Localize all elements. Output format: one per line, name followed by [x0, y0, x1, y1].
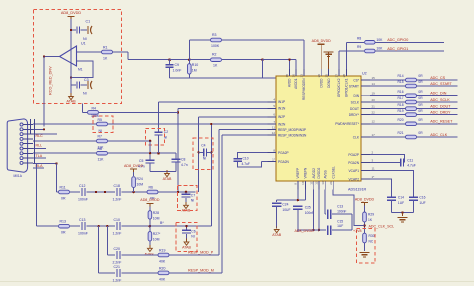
- IC U2 left pin 6 (IN2P): [268, 116, 277, 118]
- wire row A R11-C12: [70, 191, 80, 193]
- svg-text:R24: R24: [137, 177, 143, 181]
- IC U2 top pin 27 (GPIO2/CLK2): [338, 69, 340, 77]
- svg-text:1.2nF: 1.2nF: [113, 198, 122, 202]
- svg-text:0R: 0R: [418, 118, 423, 122]
- wire pin to resistor R16: [370, 95, 406, 97]
- svg-text:DVDD: DVDD: [319, 78, 323, 88]
- svg-text:0R: 0R: [418, 103, 423, 107]
- power port ATAB below C7: [185, 202, 187, 206]
- wire main row to C9 junction: [128, 59, 170, 61]
- junction ADC_CLK_SCL node: [363, 224, 366, 227]
- capacitor C3b (NI) hanging from row A: [185, 192, 187, 193]
- pin 1 output wire of U1 to node: [44, 56, 60, 58]
- IC U2 bottom pin 24 (CLKSEL): [332, 181, 334, 190]
- capacitor C10b loop at PGA2 pins: [238, 153, 268, 159]
- IC U2 top pin 16 (AVDD1): [295, 69, 297, 77]
- svg-text:17: 17: [372, 133, 376, 137]
- svg-text:NI: NI: [83, 37, 87, 41]
- resistor R19: [158, 253, 169, 257]
- svg-text:R18: R18: [398, 103, 404, 107]
- capacitor C20 row C: [116, 251, 118, 259]
- svg-text:1UF: 1UF: [419, 201, 425, 205]
- svg-text:R6: R6: [149, 186, 154, 190]
- wire R3 to chip top pin: [222, 39, 304, 41]
- junction row1 meets riser: [210, 123, 212, 125]
- wire row B drop to row C: [106, 226, 108, 255]
- svg-text:TLA: TLA: [36, 154, 43, 158]
- wire GPIO2 to R9: [338, 51, 340, 69]
- svg-text:IN1P: IN1P: [278, 100, 285, 104]
- node RCO drive junction: [43, 55, 45, 57]
- svg-text:NI: NI: [191, 199, 194, 203]
- connector P1 pin 1 stub: [23, 124, 33, 126]
- svg-text:0R: 0R: [61, 231, 66, 235]
- svg-text:28: 28: [342, 74, 346, 78]
- svg-text:1M: 1M: [192, 69, 197, 73]
- svg-text:SCLK: SCLK: [351, 100, 360, 104]
- resistor R30 NC: [363, 233, 367, 243]
- wire VCAP cap commons: [392, 211, 414, 213]
- wire PGA2N to C11: [370, 162, 401, 164]
- svg-text:AVDD1: AVDD1: [294, 78, 298, 89]
- capacitor C3 wire: [71, 84, 76, 86]
- svg-text:DGND: DGND: [327, 78, 331, 88]
- svg-text:RESP_MODN/IN3N: RESP_MODN/IN3N: [278, 133, 307, 137]
- wire V+ vertical: [70, 19, 72, 64]
- svg-text:R20: R20: [159, 266, 165, 270]
- wire branch up to R3: [188, 40, 190, 60]
- connector P1 pin 1 circle: [20, 123, 23, 126]
- connector P1 pin 5 circle: [20, 142, 23, 145]
- svg-text:DOUT: DOUT: [350, 107, 359, 111]
- wire row B drop to row D: [98, 226, 100, 273]
- svg-text:PGA2P: PGA2P: [348, 153, 359, 157]
- svg-text:18: 18: [285, 74, 289, 78]
- svg-text:C13: C13: [337, 205, 343, 209]
- resistor R11 row A: [59, 190, 70, 194]
- svg-text:ADC_DIN: ADC_DIN: [430, 92, 447, 96]
- svg-text:12: 12: [272, 131, 276, 135]
- IC U2 right pin 12 (PWDN*/RESET*): [361, 123, 370, 125]
- svg-text:100nF: 100nF: [337, 209, 346, 213]
- junction C5 column / row6: [149, 152, 151, 154]
- junction DVDD rail: [318, 229, 321, 232]
- IC U2 right pin 1* (VCAP2): [361, 178, 370, 180]
- svg-text:VCAP2: VCAP2: [349, 177, 360, 181]
- wire to net label ADC_DOUT: [417, 108, 458, 110]
- svg-text:GPIO2/CLK2: GPIO2/CLK2: [337, 78, 341, 97]
- svg-text:R8: R8: [98, 147, 103, 151]
- connector P1 pin 6 stub: [23, 148, 33, 150]
- svg-text:NI: NI: [203, 157, 206, 161]
- ground hatch at DGND pin: [324, 51, 334, 53]
- svg-text:AVDD2: AVDD2: [312, 168, 316, 179]
- wire IN2N riser from row B: [210, 124, 212, 226]
- junction riser C4 left: [198, 151, 200, 153]
- svg-text:C20: C20: [114, 247, 120, 251]
- capacitor C1: [76, 27, 78, 34]
- power port ATAB for C5/C8: [166, 170, 168, 174]
- svg-text:NI: NI: [191, 235, 194, 239]
- svg-text:AD8_DVDD: AD8_DVDD: [355, 197, 375, 201]
- svg-text:C25: C25: [305, 206, 311, 210]
- IC U2 right pin 14 (START): [361, 85, 370, 87]
- svg-text:IN2N: IN2N: [278, 122, 286, 126]
- wire rail row2 to +1V8: [332, 229, 352, 231]
- svg-text:C14: C14: [398, 196, 404, 200]
- wire to net label ADC_CS: [417, 79, 458, 81]
- wire DB9 row7 short: [33, 157, 46, 159]
- svg-text:C12: C12: [79, 184, 85, 188]
- capacitor C13 row B: [81, 222, 83, 230]
- svg-text:R29: R29: [368, 213, 374, 217]
- capacitor C5 column below row4: [149, 141, 151, 160]
- svg-text:AD8_DVDD: AD8_DVDD: [61, 11, 82, 15]
- resistor R16 0R: [406, 94, 417, 98]
- IC U2 left pin 4 (IN1P): [268, 101, 277, 103]
- svg-text:C7: C7: [191, 194, 195, 198]
- connector P1 pin 5 stub: [23, 143, 33, 145]
- svg-text:AD8_DVDD: AD8_DVDD: [312, 39, 332, 43]
- wire DB9 row6 (R8 11K): [33, 152, 96, 154]
- wire IN1P net riser with series cap C2: [158, 136, 160, 154]
- wire to net label ADC_DIN: [417, 95, 458, 97]
- IC U2 right pin 17 (CLK): [361, 136, 370, 138]
- capacitor C12 row A: [81, 188, 83, 196]
- capacitor C15 1UF in rail row2: [327, 225, 329, 235]
- wire to net ADC_GPIO1: [375, 50, 444, 52]
- wire DB9 riser a: [29, 119, 31, 134]
- IC U2 left pin 7 (IN2N): [268, 123, 277, 125]
- svg-text:4.7uF: 4.7uF: [407, 164, 416, 168]
- svg-text:R21: R21: [398, 131, 404, 135]
- wire R2 net to top pin drops: [263, 59, 296, 61]
- IC U2 ADS1191R body: [276, 76, 361, 181]
- wire row A C12 to C18: [87, 191, 116, 193]
- svg-text:R30: R30: [369, 234, 375, 238]
- wire row B R13-C13: [70, 225, 80, 227]
- connector P1 DB9 body: [7, 119, 27, 172]
- capacitor C2 (NI) in riser: [155, 131, 163, 133]
- svg-text:R11: R11: [60, 186, 66, 190]
- svg-text:R27*: R27*: [153, 232, 161, 236]
- wire right rail joining rows: [351, 214, 353, 230]
- dashed enclosure around R5: [93, 116, 113, 133]
- svg-text:40K: 40K: [159, 277, 166, 281]
- junction IN1N riser row A: [177, 191, 179, 193]
- svg-text:CS*: CS*: [353, 78, 359, 82]
- capacitor C6 (NI) hanging from row B: [186, 226, 188, 229]
- IC U2 bottom pin 13* (AVSS): [324, 181, 326, 190]
- svg-text:ADC_CLK_SCL: ADC_CLK_SCL: [369, 224, 395, 228]
- svg-text:ADC_START: ADC_START: [430, 82, 452, 86]
- capacitor C3: [76, 82, 78, 89]
- svg-text:ADC_SCLK: ADC_SCLK: [430, 98, 450, 102]
- wire to net label ADC_SCLK: [417, 101, 458, 103]
- wire DB9 row9 short: [33, 167, 44, 169]
- wire pin to resistor R19b: [370, 114, 406, 116]
- wire R2 to chip corner: [222, 59, 263, 61]
- wire DVDD rail row2: [298, 229, 326, 231]
- wire RCO_RED_DRV vertical to DB9 row: [43, 57, 45, 127]
- capacitor C22 1UF: [387, 196, 396, 198]
- resistor R28 pull-up: [149, 206, 151, 211]
- resistor R2: [211, 58, 222, 62]
- resistor R1: [102, 50, 113, 54]
- wire row B C10 to riser: [122, 225, 212, 227]
- wire top pin AVDD drop (R2 net): [289, 60, 291, 69]
- svg-text:RLL: RLL: [36, 144, 43, 148]
- resistor R18 0R: [406, 107, 417, 111]
- IC U2 right pin 20 (SCLK): [361, 101, 370, 103]
- capacitor C10 row B: [116, 222, 118, 230]
- svg-text:PGA2N: PGA2N: [278, 160, 290, 164]
- svg-text:ADC_CLK: ADC_CLK: [430, 133, 448, 137]
- sheet border line bottom-left: [0, 281, 474, 283]
- wire R4 left riser: [81, 104, 83, 113]
- svg-text:CLKSEL: CLKSEL: [331, 166, 335, 178]
- wire R1 to corner: [112, 51, 128, 53]
- wire DB9 row2: [33, 128, 44, 130]
- ground hatch below R30: [360, 252, 370, 254]
- resistor R29 1K pull-up: [364, 205, 366, 212]
- wire to net label ADC_START: [417, 85, 458, 87]
- junction C6 row B: [185, 225, 187, 227]
- wire pin to resistor R21: [370, 136, 406, 138]
- svg-text:R13: R13: [60, 220, 66, 224]
- svg-text:GPIO1/CLK1: GPIO1/CLK1: [345, 78, 349, 97]
- svg-text:0R: 0R: [418, 131, 423, 135]
- svg-text:R19: R19: [159, 249, 165, 253]
- svg-text:ATAB: ATAB: [182, 245, 191, 249]
- svg-text:C16: C16: [419, 196, 425, 200]
- IC U2 left pin 1* (PGA2N): [268, 161, 277, 163]
- svg-text:AVSS: AVSS: [323, 170, 327, 178]
- IC U2 left pin 12 (RESP_MODN/IN3N): [268, 134, 277, 136]
- IC U2 top pin 23 (RESP/MODEN): [303, 69, 305, 77]
- svg-text:12: 12: [372, 120, 376, 124]
- resistor R3: [211, 38, 222, 42]
- connector P1 pin 3 stub: [23, 133, 33, 135]
- IC U2 bottom pin 9 (VREFP): [297, 181, 299, 190]
- resistor R8 in row6: [97, 151, 108, 155]
- resistor R9 10K: [365, 49, 376, 53]
- svg-text:NC: NC: [369, 240, 374, 244]
- svg-text:10K: 10K: [376, 38, 383, 42]
- junction row A / C3b column: [185, 191, 188, 194]
- junction C5 column crossing row6: [149, 152, 151, 154]
- svg-text:ATAB: ATAB: [272, 233, 281, 237]
- svg-text:11: 11: [372, 166, 375, 170]
- dashed enclosure around C7: [178, 185, 197, 210]
- wire pin to resistor R17: [370, 101, 406, 103]
- wire row1 to right rail: [332, 213, 352, 215]
- wire pin to resistor R20b: [370, 123, 406, 125]
- resistor R20b 0R: [406, 122, 417, 126]
- svg-text:0R: 0R: [418, 80, 423, 84]
- svg-text:22: 22: [372, 110, 376, 114]
- svg-text:23: 23: [300, 74, 304, 78]
- wire main row C9 to R10: [170, 59, 190, 61]
- svg-text:DIN: DIN: [354, 94, 360, 98]
- connector P1 pin 8 circle: [20, 157, 23, 160]
- polarized capacitor (C1 return): [87, 26, 89, 34]
- svg-text:IN1N: IN1N: [278, 107, 286, 111]
- IC U2 right pin 19 (DIN): [361, 95, 370, 97]
- svg-text:C8: C8: [181, 158, 185, 162]
- junction riser C4 right: [210, 151, 212, 153]
- power port ATAB below C24: [276, 226, 278, 230]
- junction R2 net at AVDD pin: [288, 59, 290, 61]
- IC U2 bottom pin 11* (AVDD2): [313, 181, 315, 190]
- svg-text:RCO_RED_DRV: RCO_RED_DRV: [49, 66, 53, 95]
- svg-text:VCAP1: VCAP1: [349, 169, 360, 173]
- wire row C C20 to R19: [122, 254, 159, 256]
- svg-text:0R: 0R: [418, 96, 423, 100]
- svg-text:100nF: 100nF: [305, 211, 314, 215]
- junction row B x107.3: [106, 225, 108, 227]
- svg-text:PGA2P: PGA2P: [278, 151, 289, 155]
- svg-text:C10: C10: [243, 156, 249, 160]
- IC U2 right pin 11 (VCAP1): [361, 170, 370, 172]
- wire DB9 riser b: [34, 119, 36, 163]
- svg-text:27: 27: [335, 74, 339, 78]
- capacitor C23 1UF: [409, 196, 418, 198]
- wire main row R10 to R2: [189, 59, 210, 61]
- wire top pin 23 drop from R3 net: [303, 40, 305, 69]
- IC U2 right pin 15 (CS*): [361, 79, 370, 81]
- polarized capacitor (C3 return): [87, 81, 89, 89]
- connector P1 pin 2 stub: [23, 128, 33, 130]
- svg-text:14: 14: [372, 82, 376, 86]
- svg-text:C21: C21: [114, 265, 120, 269]
- wire DB9 row1 (through shield resistor): [33, 123, 96, 125]
- wire AVSS pin drop to row1: [324, 190, 326, 215]
- svg-text:4.7uF: 4.7uF: [242, 162, 250, 166]
- wire DB9 row5 short: [33, 148, 46, 150]
- junction AVDD2 rail: [313, 229, 315, 231]
- svg-text:0R: 0R: [61, 197, 66, 201]
- svg-text:CLK: CLK: [353, 135, 360, 139]
- wire pin to resistor R15: [370, 85, 406, 87]
- svg-text:ADC_GPIO0: ADC_GPIO0: [387, 38, 408, 42]
- wire AVDD2 pin drop: [313, 190, 315, 231]
- svg-text:R20: R20: [398, 118, 404, 122]
- svg-text:R5: R5: [98, 118, 103, 122]
- IC U2 right pin 21 (DOUT): [361, 108, 370, 110]
- svg-text:1UF: 1UF: [337, 224, 343, 228]
- junction row A x105: [104, 191, 106, 193]
- wire PGA2P loop to C11: [370, 155, 405, 163]
- capacitor C9 (to lower rail): [169, 60, 171, 65]
- connector P1 pin 8 stub: [23, 157, 33, 159]
- svg-text:VREFN: VREFN: [304, 167, 308, 179]
- connector P1 pin 9 circle: [20, 161, 23, 164]
- dashed enclosure around C2: [145, 128, 164, 145]
- resistor R8 10K: [365, 41, 376, 45]
- svg-text:C15: C15: [337, 219, 343, 223]
- svg-text:R16: R16: [398, 90, 404, 94]
- resistor R27 pull-down: [149, 226, 151, 231]
- connector P1 pin 3 circle: [20, 133, 23, 136]
- svg-text:0R: 0R: [418, 109, 423, 113]
- shield enclosure (dashed) around reference driver op-amp: [34, 10, 122, 104]
- capacitor C8 column at row6 end: [175, 153, 177, 159]
- capacitor C21 row D: [116, 269, 118, 277]
- junction row A / R24 column: [132, 191, 135, 194]
- svg-text:1K: 1K: [213, 64, 218, 68]
- capacitor C25 100nF below VREFP: [293, 205, 303, 207]
- svg-text:1.2nF: 1.2nF: [113, 232, 122, 236]
- capacitor C4 (NI) bridging risers: [199, 151, 204, 153]
- junction VREFP rail: [297, 199, 299, 201]
- IC U2 top pin 26 (DVDD): [320, 69, 322, 77]
- resistor R13 row B: [59, 224, 70, 228]
- resistor R15 0R: [406, 84, 417, 88]
- svg-text:R2: R2: [212, 53, 217, 57]
- svg-text:11: 11: [272, 125, 275, 129]
- svg-text:4.7n: 4.7n: [138, 165, 145, 169]
- resistor R14 0R: [406, 78, 417, 82]
- svg-text:R4: R4: [92, 107, 97, 111]
- svg-text:40K: 40K: [159, 260, 166, 264]
- svg-text:19: 19: [372, 92, 376, 96]
- svg-text:ATAB: ATAB: [163, 177, 172, 181]
- wire VREF rail: [277, 199, 306, 201]
- svg-text:R14: R14: [398, 74, 404, 78]
- svg-text:PWDN*/RESET*: PWDN*/RESET*: [335, 122, 359, 126]
- svg-text:15: 15: [372, 76, 376, 80]
- connector P1 pin 7 stub: [23, 152, 33, 154]
- IC U2 top pin 18 (AVDD): [289, 69, 291, 77]
- lower return rail to chip: [170, 77, 276, 79]
- svg-text:16: 16: [292, 74, 296, 78]
- resistor R19b 0R: [406, 113, 417, 117]
- svg-text:R19: R19: [398, 109, 404, 113]
- IC U2 right pin 3 (PGA2N): [361, 162, 370, 164]
- svg-text:25: 25: [324, 74, 328, 78]
- junction row B x98.6: [97, 225, 99, 227]
- connector P1 pin 9 stub: [23, 162, 33, 164]
- svg-text:R1: R1: [103, 46, 108, 50]
- svg-text:ADC_RESET: ADC_RESET: [430, 120, 453, 124]
- dashed enclosure around C4: [193, 138, 213, 170]
- wire row C R19 to riser: [169, 254, 219, 256]
- svg-text:NI: NI: [83, 92, 87, 96]
- dashed enclosure around R30: [356, 229, 375, 264]
- svg-text:24: 24: [329, 181, 333, 185]
- svg-text:DRDY*: DRDY*: [349, 113, 360, 117]
- resistor R10 (to lower rail): [188, 60, 190, 64]
- svg-text:IN2P: IN2P: [278, 115, 285, 119]
- svg-text:10: 10: [301, 181, 305, 185]
- svg-text:100nF: 100nF: [78, 198, 88, 202]
- svg-text:C4: C4: [201, 144, 205, 148]
- resistor R17 0R: [406, 100, 417, 104]
- IC U2 top pin 28 (GPIO1/CLK1): [345, 69, 347, 77]
- svg-text:C10: C10: [114, 218, 120, 222]
- resistor R20: [158, 271, 169, 275]
- svg-text:1UF: 1UF: [398, 201, 404, 205]
- wire pin to resistor R18: [370, 108, 406, 110]
- svg-text:1.2nF: 1.2nF: [113, 278, 122, 282]
- svg-text:+1V8: +1V8: [353, 229, 362, 233]
- capacitor C1 wire: [71, 29, 76, 31]
- wire row8 junction drop to row A: [56, 163, 58, 192]
- svg-text:20: 20: [372, 98, 376, 102]
- resistor R7 in row4: [97, 139, 108, 143]
- wire GPIO1 to R8: [345, 42, 347, 69]
